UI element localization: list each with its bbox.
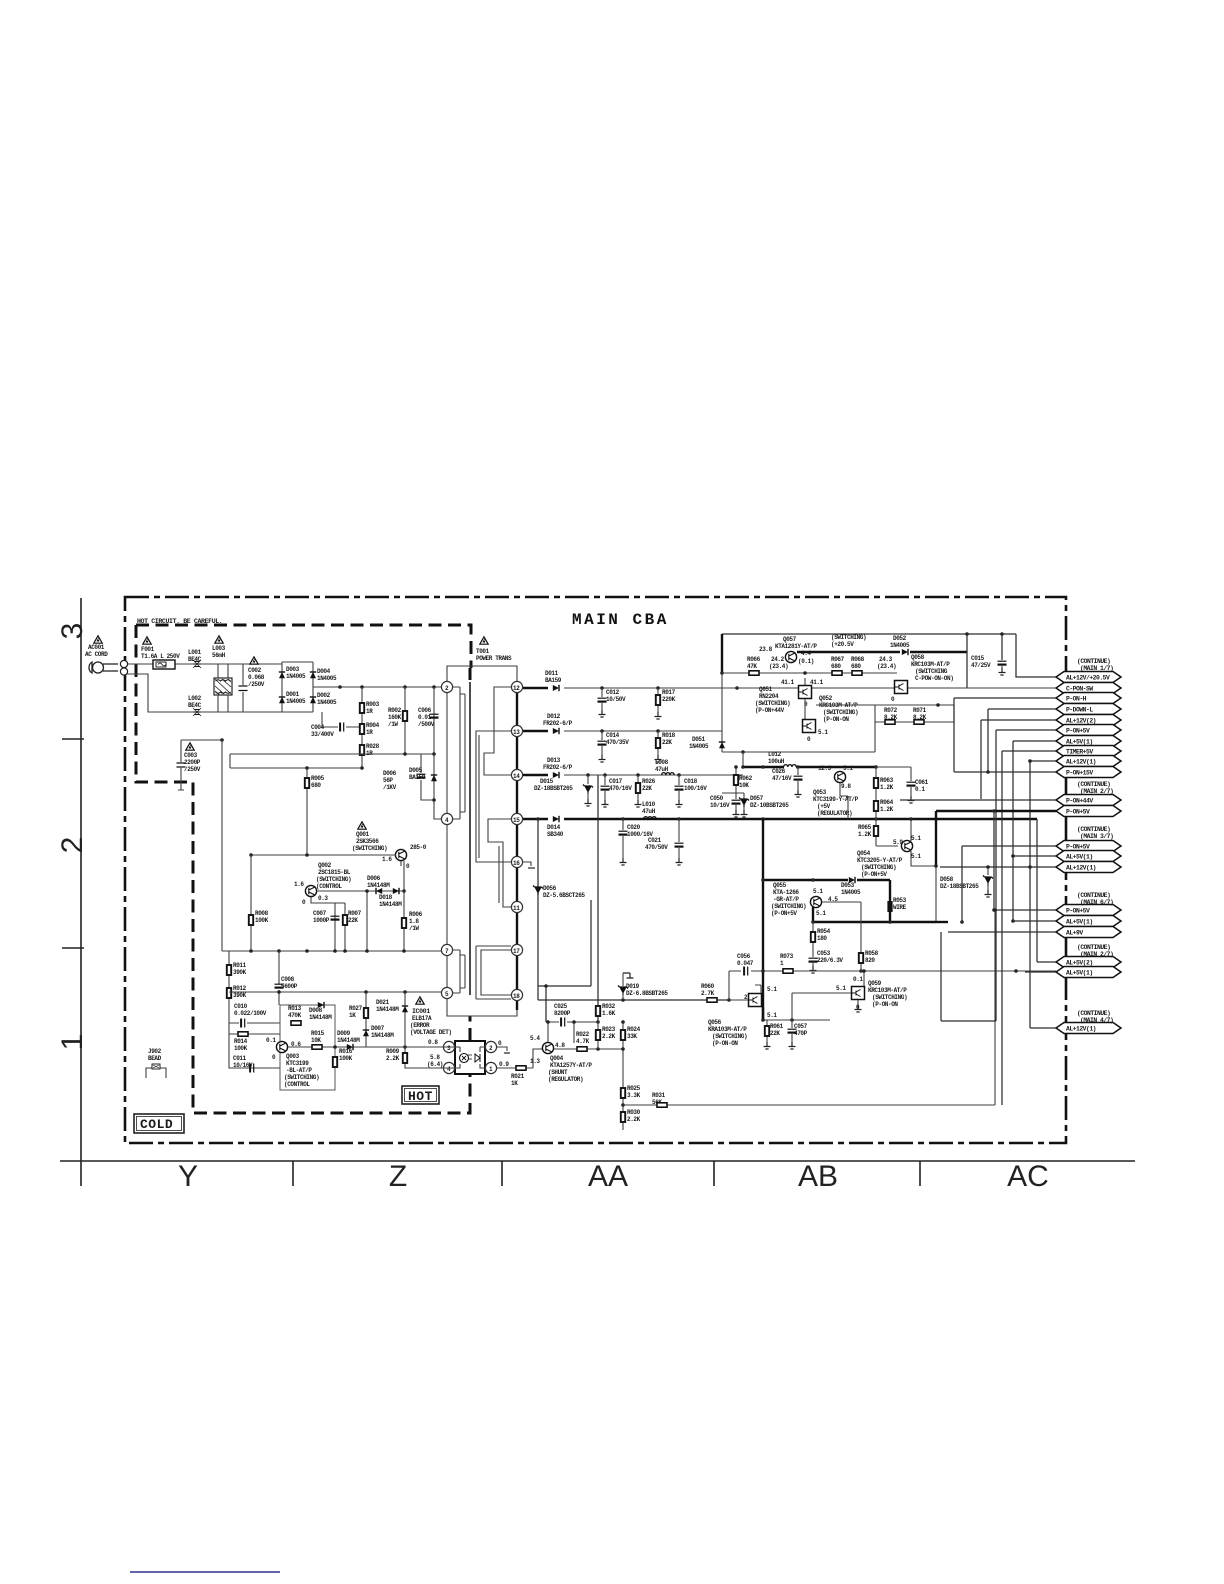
svg-text:R060: R060 <box>701 983 715 990</box>
svg-text:820: 820 <box>865 957 875 964</box>
resistor R018 <box>655 731 676 762</box>
svg-text:0.9: 0.9 <box>499 1061 509 1068</box>
svg-text:Q002: Q002 <box>318 862 332 869</box>
resistor R014 <box>229 1032 280 1052</box>
warning AC001 <box>94 636 102 643</box>
svg-text:47/25V: 47/25V <box>971 662 991 669</box>
svg-text:Q059: Q059 <box>868 980 882 987</box>
connector flag P-ON+44V y800 <box>1056 795 1121 806</box>
svg-text:1.2K: 1.2K <box>880 806 894 813</box>
HOT label <box>402 1086 439 1104</box>
svg-text:BEAD: BEAD <box>148 1055 162 1062</box>
svg-text:2.2K: 2.2K <box>386 1055 400 1062</box>
capacitor C057 <box>788 1020 808 1049</box>
svg-text:DZ-5.6BSCT265: DZ-5.6BSCT265 <box>543 892 585 899</box>
svg-text:(SWITCHING): (SWITCHING) <box>861 864 896 871</box>
wire Q055 top row <box>761 878 890 901</box>
continue note MAIN 2/7 <box>1077 781 1113 795</box>
warning Q001 <box>358 822 366 829</box>
wire AC bottom rail <box>127 674 282 712</box>
svg-text:D019: D019 <box>626 983 640 990</box>
svg-text:5.1: 5.1 <box>816 910 826 917</box>
transistor Q058 <box>891 654 953 703</box>
svg-text:R011: R011 <box>233 962 247 969</box>
svg-text:Q003: Q003 <box>286 1053 300 1060</box>
resistor R015 <box>288 1030 335 1049</box>
wire AL+12V(1) lead2 <box>940 865 1056 869</box>
connector flag AL+12V(1) y761 <box>1056 756 1121 767</box>
resistor R054 <box>811 922 831 955</box>
diode D005 <box>409 754 441 819</box>
svg-text:1R: 1R <box>366 729 373 736</box>
capacitor C053 <box>809 950 844 973</box>
svg-text:100K: 100K <box>255 917 269 924</box>
svg-text:L003: L003 <box>212 645 226 652</box>
svg-text:P-ON+44V: P-ON+44V <box>1066 798 1093 805</box>
wire Q055 base sense <box>822 902 861 971</box>
svg-text:(REGULATOR): (REGULATOR) <box>548 1076 583 1083</box>
svg-text:0: 0 <box>498 1040 502 1047</box>
svg-text:D006: D006 <box>367 875 381 882</box>
svg-text:(SWITCHING): (SWITCHING) <box>755 700 790 707</box>
svg-text:(P-ON+5V: (P-ON+5V <box>771 910 797 917</box>
svg-text:WIRE: WIRE <box>893 904 907 911</box>
svg-text:BA159: BA159 <box>409 774 426 781</box>
svg-text:F001: F001 <box>141 646 155 653</box>
svg-text:10/16V: 10/16V <box>710 802 730 809</box>
hot circuit warning text <box>137 618 222 625</box>
resistor R013 <box>288 1005 302 1025</box>
pin 12 <box>511 681 522 692</box>
svg-text:1N4148M: 1N4148M <box>379 901 402 908</box>
svg-text:(CONTROL: (CONTROL <box>284 1081 310 1088</box>
diode D004 <box>310 668 337 682</box>
zone label AB <box>798 1160 838 1193</box>
connector flag P-ON+5V y846 <box>1056 841 1121 852</box>
svg-text:D005: D005 <box>409 767 423 774</box>
svg-text:17: 17 <box>513 948 520 955</box>
svg-text:23.8: 23.8 <box>759 646 773 653</box>
svg-text:C006: C006 <box>418 707 432 714</box>
svg-text:Q053: Q053 <box>813 789 827 796</box>
svg-text:R027: R027 <box>349 1005 363 1012</box>
svg-text:D004: D004 <box>317 668 331 675</box>
wire AL+5V(1) lead3 <box>1013 920 1056 922</box>
continue note MAIN 3/7 <box>1077 826 1113 840</box>
svg-text:MAIN CBA: MAIN CBA <box>572 611 669 629</box>
gnd D019 <box>623 973 634 978</box>
svg-text:Q057: Q057 <box>783 636 797 643</box>
svg-text:L002: L002 <box>188 695 202 702</box>
wire R066 row <box>722 671 897 675</box>
svg-text:KTA1257Y-AT/P: KTA1257Y-AT/P <box>550 1062 592 1069</box>
svg-text:(+5V: (+5V <box>817 803 831 810</box>
svg-text:D007: D007 <box>371 1025 385 1032</box>
svg-text:10K: 10K <box>311 1037 321 1044</box>
svg-text:-BL-AT/P: -BL-AT/P <box>286 1067 312 1074</box>
resistor R006 <box>402 911 423 932</box>
svg-text:(P-ON-ON: (P-ON-ON <box>712 1040 738 1047</box>
wire Q054 collector emitter <box>909 817 936 922</box>
pin 2 IC001 <box>485 1040 502 1053</box>
svg-text:Q051: Q051 <box>759 686 773 693</box>
svg-text:FR202-6/P: FR202-6/P <box>543 764 573 771</box>
resistor R017 <box>655 688 676 719</box>
svg-text:D058: D058 <box>940 876 954 883</box>
svg-text:D021: D021 <box>376 999 390 1006</box>
connector flag TIMER+5V y751 <box>1056 746 1121 757</box>
svg-text:680: 680 <box>311 782 321 789</box>
svg-text:R064: R064 <box>880 799 894 806</box>
resistor R022 <box>576 1031 590 1051</box>
svg-text:C-POW-ON-ON): C-POW-ON-ON) <box>915 675 953 682</box>
left ruler line <box>80 598 82 1186</box>
connector flag P-DOWN-L y709 <box>1056 704 1121 715</box>
transistor Q056 <box>708 986 777 1047</box>
continue note MAIN 2/7 <box>1077 944 1113 958</box>
svg-text:24.3: 24.3 <box>879 656 893 663</box>
svg-text:R066: R066 <box>747 656 761 663</box>
svg-text:C061: C061 <box>915 779 929 786</box>
svg-text:/1W: /1W <box>388 721 398 728</box>
svg-text:C012: C012 <box>606 689 620 696</box>
wire Q002 base column <box>365 889 369 951</box>
svg-text:8200P: 8200P <box>554 1010 571 1017</box>
svg-text:0: 0 <box>891 696 895 703</box>
capacitor C007 <box>313 910 340 924</box>
svg-text:470/16V: 470/16V <box>609 785 632 792</box>
svg-text:1N4005: 1N4005 <box>841 889 861 896</box>
transistor Q002 <box>294 862 351 906</box>
resistor R060 <box>701 983 748 1002</box>
svg-text:285-0: 285-0 <box>410 844 427 851</box>
svg-text:5.1: 5.1 <box>911 853 921 860</box>
svg-text:KTC3205-Y-AT/P: KTC3205-Y-AT/P <box>857 857 903 864</box>
svg-text:2.2K: 2.2K <box>627 1116 641 1123</box>
svg-text:(SWITCHING): (SWITCHING) <box>771 903 806 910</box>
svg-text:R024: R024 <box>627 1026 641 1033</box>
ferrite bead L001 <box>188 649 202 668</box>
svg-text:P-ON-H: P-ON-H <box>1066 696 1087 703</box>
voltage 24.2 <box>769 656 788 670</box>
connector flag P-ON+15V y772 <box>1056 767 1121 778</box>
capacitor C014 <box>598 731 630 762</box>
secondary bus bold <box>516 693 518 1010</box>
connector flag AL+5V(1) y972 <box>1056 967 1121 978</box>
wire P-ON+5V lead4 <box>993 908 1056 912</box>
svg-text:KTA-1266: KTA-1266 <box>773 889 799 896</box>
diode D052 <box>890 634 967 688</box>
fuse F001 <box>141 646 180 669</box>
svg-text:1R: 1R <box>366 708 373 715</box>
svg-text:1N4005: 1N4005 <box>286 673 306 680</box>
warning T001 <box>480 637 488 644</box>
svg-text:(P-ON+44V: (P-ON+44V <box>755 707 785 714</box>
svg-text:C020: C020 <box>627 824 641 831</box>
svg-text:1.2K: 1.2K <box>880 784 894 791</box>
resistor R064 <box>874 799 894 813</box>
svg-text:AB: AB <box>798 1160 838 1193</box>
inductor L012 <box>741 751 878 769</box>
transformer T001 label <box>476 648 512 662</box>
COLD label <box>134 1114 184 1133</box>
svg-text:C017: C017 <box>609 778 623 785</box>
connector flag C-PON-SW y688 <box>1056 683 1121 694</box>
svg-text:R005: R005 <box>311 775 325 782</box>
svg-text:1.8: 1.8 <box>409 918 419 925</box>
wire AL+12V(1) lead3 <box>1030 1027 1056 1029</box>
svg-text:T1.6A L 250V: T1.6A L 250V <box>141 653 180 660</box>
svg-text:Q058: Q058 <box>911 654 925 661</box>
svg-text:R009: R009 <box>386 1048 400 1055</box>
svg-text:(SHUNT: (SHUNT <box>548 1069 568 1076</box>
svg-text:18: 18 <box>513 993 520 1000</box>
svg-text:AC: AC <box>1007 1160 1049 1193</box>
svg-text:P-ON+5V: P-ON+5V <box>1066 728 1090 735</box>
svg-text:R058: R058 <box>865 950 879 957</box>
svg-text:47uH: 47uH <box>655 766 669 773</box>
svg-text:11: 11 <box>513 905 520 912</box>
resistor R004 <box>360 722 380 736</box>
diode D007 <box>363 1025 394 1039</box>
capacitor C061 <box>876 767 929 803</box>
svg-text:D018: D018 <box>379 894 393 901</box>
warning IC001 <box>416 997 424 1004</box>
svg-text:(SWITCHING): (SWITCHING) <box>712 1033 747 1040</box>
resistor R058 <box>859 950 879 973</box>
svg-text:J902: J902 <box>148 1048 162 1055</box>
transformer core <box>469 682 471 995</box>
wire P-DOWN-L lead <box>941 709 1056 1021</box>
zener D058 <box>940 867 993 897</box>
footer blue line <box>130 1571 280 1573</box>
svg-text:R007: R007 <box>348 910 362 917</box>
connector flag AL+5V(2) y962 <box>1056 957 1121 968</box>
svg-text:22K: 22K <box>348 917 358 924</box>
resistor R073 <box>780 953 794 973</box>
svg-text:0: 0 <box>272 1054 276 1061</box>
svg-text:C014: C014 <box>606 732 620 739</box>
capacitor C056 <box>737 953 754 976</box>
svg-text:5600P: 5600P <box>281 983 298 990</box>
wire Q052 out rows <box>816 703 954 752</box>
svg-text:R017: R017 <box>662 689 676 696</box>
svg-text:1N4005: 1N4005 <box>890 642 910 649</box>
svg-text:2200P: 2200P <box>184 759 201 766</box>
svg-text:47uH: 47uH <box>642 808 656 815</box>
diode D051 <box>689 731 725 752</box>
svg-text:(SWITCHING): (SWITCHING) <box>872 994 907 1001</box>
wire Q057 collector <box>797 651 900 653</box>
svg-text:AL+12V(1): AL+12V(1) <box>1066 1026 1096 1033</box>
wire D056 bottom row <box>538 998 731 1002</box>
svg-text:1.6K: 1.6K <box>602 1010 616 1017</box>
svg-text:POWER TRANS: POWER TRANS <box>476 655 512 662</box>
svg-text:1.6: 1.6 <box>294 881 304 888</box>
transistor Q003 <box>266 1037 319 1088</box>
secondary winding 17-18 <box>476 946 511 999</box>
pin 1 IC001 <box>485 1061 509 1074</box>
svg-text:FR202-6/P: FR202-6/P <box>543 720 573 727</box>
wire top bus <box>722 632 1016 636</box>
resistor R009 <box>386 1047 443 1068</box>
svg-text:2SK3566: 2SK3566 <box>356 838 379 845</box>
wire P-ON+44V lead <box>900 799 1056 801</box>
svg-text:3.3K: 3.3K <box>627 1092 641 1099</box>
svg-text:0.3: 0.3 <box>318 895 328 902</box>
svg-text:D053: D053 <box>841 882 855 889</box>
svg-text:Q056: Q056 <box>708 1019 722 1026</box>
svg-text:R008: R008 <box>255 910 269 917</box>
svg-text:D012: D012 <box>547 713 561 720</box>
svg-text:12: 12 <box>513 685 520 692</box>
svg-text:(SWITCHING): (SWITCHING) <box>316 876 351 883</box>
wire B+ rail to pin2 <box>313 685 441 689</box>
svg-text:(6.4): (6.4) <box>427 1061 443 1068</box>
wire Q056 bottom row <box>761 1007 830 1022</box>
svg-text:AC CORD: AC CORD <box>85 651 108 658</box>
wire top left drop <box>720 634 724 731</box>
wire C050 row <box>722 793 744 796</box>
svg-text:1K: 1K <box>511 1080 518 1087</box>
svg-text:/250V: /250V <box>184 766 201 773</box>
svg-text:(0.1): (0.1) <box>798 658 814 665</box>
wire P-ON-H lead <box>954 698 1056 722</box>
svg-text:1: 1 <box>780 960 784 967</box>
aux winding 7-5 <box>447 950 465 993</box>
svg-text:100uH: 100uH <box>768 758 785 765</box>
svg-text:160K: 160K <box>388 714 402 721</box>
AC plug <box>89 660 128 675</box>
wire P-ON+5V feed bold <box>762 819 764 1020</box>
svg-text:Y: Y <box>178 1160 198 1193</box>
zener D057 <box>739 795 789 817</box>
svg-text:(P-ON-ON: (P-ON-ON <box>823 716 849 723</box>
optocoupler IC001 label <box>410 1008 452 1036</box>
wire primary gnd bus <box>222 949 441 953</box>
svg-text:R028: R028 <box>366 743 380 750</box>
svg-text:AC001: AC001 <box>88 644 105 651</box>
svg-text:R030: R030 <box>627 1109 641 1116</box>
wire P-ON+5V lead3 <box>960 846 1056 924</box>
wire AL+5V(1) lead <box>1011 741 1056 923</box>
svg-text:(CONTINUE): (CONTINUE) <box>1077 944 1110 951</box>
svg-text:0: 0 <box>302 899 306 906</box>
warning L003 <box>215 636 223 643</box>
svg-text:(CONTINUE): (CONTINUE) <box>1077 892 1110 899</box>
zone label 1 <box>56 1034 89 1051</box>
svg-text:R031: R031 <box>652 1092 666 1099</box>
wire Q002 emitter <box>311 897 345 951</box>
svg-text:5.1: 5.1 <box>767 1012 777 1019</box>
svg-text:R014: R014 <box>234 1038 248 1045</box>
svg-text:DZ-18BSBT265: DZ-18BSBT265 <box>940 883 979 890</box>
svg-text:1.2K: 1.2K <box>858 831 872 838</box>
svg-text:1N4148M: 1N4148M <box>309 1014 332 1021</box>
wire P-ON+5V bold lead <box>934 809 1056 912</box>
warning F001 <box>143 637 151 644</box>
svg-text:2SC1815-BL: 2SC1815-BL <box>318 869 351 876</box>
resistor R068 <box>851 656 865 675</box>
svg-text:D052: D052 <box>893 635 907 642</box>
wire row pin12 <box>523 686 895 690</box>
svg-text:R061: R061 <box>770 1023 784 1030</box>
svg-text:41.1: 41.1 <box>781 679 795 686</box>
diode D012 <box>543 713 573 734</box>
svg-text:AL+5V(1): AL+5V(1) <box>1066 970 1093 977</box>
secondary winding 13-16 <box>476 731 511 862</box>
ferrite bead L002 <box>188 695 202 716</box>
svg-text:(CONTROL: (CONTROL <box>316 883 342 890</box>
svg-text:P-ON+5V: P-ON+5V <box>1066 844 1090 851</box>
continue note MAIN 4/7 <box>1077 1010 1113 1024</box>
svg-text:AL+9V: AL+9V <box>1066 930 1083 937</box>
inductor L008 <box>655 759 674 775</box>
wire Q058 out <box>908 687 1056 689</box>
continue note MAIN 6/7 <box>1077 892 1113 906</box>
connector flag AL+12V(2) y720 <box>1056 715 1121 726</box>
pin 7 <box>441 944 452 955</box>
svg-text:(MAIN 6/7): (MAIN 6/7) <box>1080 899 1113 906</box>
svg-text:C002: C002 <box>248 667 262 674</box>
svg-text:100K: 100K <box>339 1055 353 1062</box>
resistor R032 <box>596 1000 616 1022</box>
svg-text:AL+5V(1): AL+5V(1) <box>1066 739 1093 746</box>
svg-text:13: 13 <box>513 729 520 736</box>
svg-text:1N4148M: 1N4148M <box>376 1006 399 1013</box>
wire AL+5V(1) lead2 <box>1011 854 1056 858</box>
svg-text:1: 1 <box>56 1034 89 1051</box>
voltage 24.3 <box>877 656 896 670</box>
wire left drop column <box>221 740 223 951</box>
svg-text:AL+5V(2): AL+5V(2) <box>1066 960 1093 967</box>
svg-text:(VOLTAGE DET): (VOLTAGE DET) <box>410 1029 452 1036</box>
svg-text:(SWITCHING): (SWITCHING) <box>284 1074 319 1081</box>
svg-text:D002: D002 <box>317 692 331 699</box>
svg-text:0.047: 0.047 <box>737 960 754 967</box>
svg-text:L001: L001 <box>188 649 202 656</box>
capacitor C025 <box>546 1003 600 1043</box>
transistor Q053 <box>813 765 859 817</box>
main cba dash-dot border <box>125 597 1066 1143</box>
svg-text:(23.4): (23.4) <box>877 663 896 670</box>
diode D009 <box>333 1030 443 1050</box>
svg-text:Q054: Q054 <box>857 850 871 857</box>
transistor Q051 <box>755 679 824 714</box>
svg-text:Q055: Q055 <box>773 882 787 889</box>
inductor L010 <box>642 801 656 819</box>
pin 18 <box>511 989 522 1000</box>
svg-text:24.2: 24.2 <box>771 656 785 663</box>
wire AL+5V(1) lead4 <box>1025 971 1056 973</box>
pin 5 <box>441 987 452 998</box>
svg-text:D057: D057 <box>750 795 764 802</box>
wire Q059 links <box>792 969 866 1020</box>
gnd pin16 <box>523 862 535 868</box>
transformer frame <box>447 666 517 1016</box>
svg-text:1.6: 1.6 <box>382 856 392 863</box>
resistor R030 <box>621 1103 641 1130</box>
svg-text:(SWITCHING): (SWITCHING) <box>352 845 387 852</box>
svg-text:D003: D003 <box>286 666 300 673</box>
svg-text:D051: D051 <box>692 736 706 743</box>
title MAIN CBA <box>572 611 669 629</box>
svg-text:AL+12V(2): AL+12V(2) <box>1066 718 1096 725</box>
pin 14 <box>511 769 522 780</box>
svg-text:0.022/100V: 0.022/100V <box>234 1010 267 1017</box>
capacitor C002 <box>239 664 265 712</box>
wire D051 row <box>722 750 875 754</box>
